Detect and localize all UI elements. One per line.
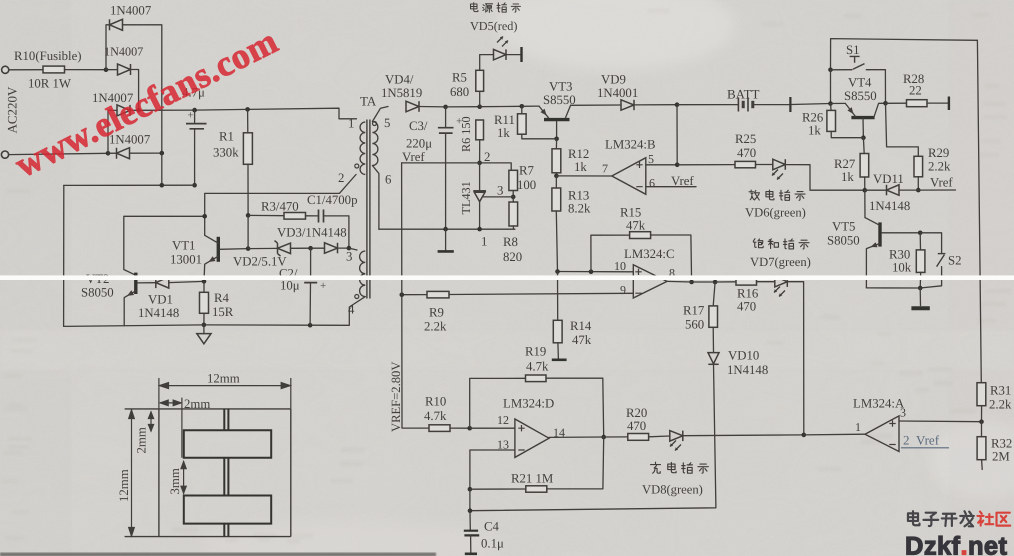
wire LM324:B output pin7 (556, 175, 611, 177)
wire node B to diode 4 (108, 152, 117, 154)
label saturation indicator (Chinese) (753, 239, 809, 249)
wire VT2 collector loop (124, 216, 205, 274)
junction Vcc / R11 (520, 104, 525, 109)
svg-text:S8050: S8050 (827, 233, 860, 247)
core E-shape bars (184, 409, 271, 537)
junction R29 / VD11 (916, 188, 921, 193)
wire R31 to divider node (981, 406, 983, 422)
TL431 shunt regulator U2 (479, 163, 481, 191)
node A junction (104, 67, 109, 72)
svg-text:2.2k: 2.2k (989, 398, 1012, 412)
dark scan edge bottom-left (0, 553, 436, 556)
wire R21 to output (547, 437, 604, 489)
junction pin12 / R19 (467, 426, 472, 431)
wire R13 node to LM324:C pin10 (558, 271, 634, 273)
wire R19 to output (546, 378, 604, 437)
svg-text:VD8(green): VD8(green) (642, 483, 703, 497)
LED VD7 saturation indicator (green) (775, 276, 788, 287)
svg-text:S2: S2 (948, 253, 962, 267)
junction + rail / R1 (245, 107, 250, 112)
wire VD9 to BATT node (634, 104, 677, 106)
junction VT1 collector / VT2 collector (202, 214, 207, 219)
svg-text:R32: R32 (991, 436, 1012, 450)
switch S1 (831, 69, 853, 71)
svg-text:R1: R1 (219, 130, 234, 144)
wire TL431 ref pin 3 (484, 196, 514, 198)
svg-text:TL431: TL431 (459, 181, 473, 214)
wire VD7 down to LM324:A input (787, 282, 804, 435)
svg-text:2: 2 (484, 150, 490, 164)
svg-text:47k: 47k (626, 218, 646, 232)
wire TL431 ground line (379, 228, 515, 230)
svg-text:560: 560 (685, 318, 704, 332)
wire R7 to R8 (512, 191, 514, 197)
transformer core dimension drawing (125, 409, 291, 537)
svg-text:LM324:D: LM324:D (503, 397, 554, 411)
svg-text:C4: C4 (484, 519, 500, 533)
wire R28 row (886, 102, 907, 104)
svg-text:R4: R4 (214, 291, 230, 305)
wire R16 to VD7 (757, 281, 775, 283)
junction R16 / R17 (713, 280, 718, 285)
wire R6 bottom lead (479, 140, 481, 163)
junction + rail / D2 (136, 108, 141, 113)
junction VD3 / C1 / winding pin 3 (347, 246, 352, 251)
svg-text:R25: R25 (735, 132, 756, 146)
wire VD3 to pin3 node (338, 247, 349, 249)
svg-text:5: 5 (648, 152, 654, 166)
svg-text:AC220V: AC220V (5, 86, 20, 134)
VT4 base lead (862, 118, 864, 138)
junction bottom rail / R4 (202, 323, 207, 328)
svg-text:1k: 1k (497, 126, 510, 140)
svg-text:R27: R27 (834, 157, 856, 171)
dimension 2mm left (148, 412, 153, 432)
svg-text:1N4148: 1N4148 (138, 306, 179, 320)
svg-text:47k: 47k (572, 333, 592, 347)
terminal AC input 2 (1, 151, 8, 158)
wire R10 to node A (65, 69, 107, 71)
diode VD3 1N4148 (325, 243, 338, 254)
svg-text:1N5819: 1N5819 (381, 86, 422, 100)
wire - rail (64, 184, 195, 186)
junction pin13 / R21 (468, 487, 473, 492)
junction pin5 / R25 (675, 163, 680, 168)
svg-text:C1/4700p: C1/4700p (307, 193, 357, 207)
wire winding4 to bottom rail (349, 297, 365, 326)
VT3 collector diagonal (566, 105, 571, 118)
wire Vref rail down (402, 163, 429, 428)
op-amp LM324:C (633, 265, 667, 298)
wire BATT node down to LM324:B pin5 (676, 105, 678, 165)
diode 1N4007 D4 (bridge) (117, 148, 130, 159)
svg-text:S1: S1 (846, 43, 860, 57)
svg-text:680: 680 (450, 85, 469, 99)
wire R3 to C1 (306, 215, 318, 217)
svg-text:TA: TA (360, 94, 377, 109)
junction R6 / TL431 node (477, 161, 482, 166)
VT2 emitter to bottom rail (124, 291, 136, 326)
svg-text:22: 22 (909, 83, 922, 97)
wire C3 node to R5/R6 node (446, 106, 480, 108)
VT1 emitter arrow (209, 256, 216, 262)
resistor R29 2.2k (914, 156, 923, 177)
capacitor C1 4700p (319, 210, 324, 223)
terminal stub after R28 (948, 97, 950, 111)
R17 and VD10 chain (713, 282, 715, 306)
junction D1/D4 negative node (160, 151, 165, 156)
battery BATT (677, 104, 738, 106)
diode VD1 1N4148 (156, 277, 169, 288)
svg-text:1N4007: 1N4007 (110, 4, 152, 18)
svg-text:R10(Fusible): R10(Fusible) (14, 49, 82, 63)
wire VD1 to VT1 emitter node (169, 281, 204, 282)
wire - rail down left side (63, 185, 65, 326)
logo shequ (Chinese red) (977, 512, 1010, 526)
wire R1 bottom lead (247, 164, 249, 215)
junction VT1 emitter / VD1 / R4 (202, 279, 207, 284)
ground bar below R30 (919, 288, 921, 306)
svg-text:7: 7 (602, 162, 608, 176)
resistor R8 820 (509, 202, 518, 226)
op-amp LM324:D (515, 419, 549, 457)
junction VT4 base / R26 (861, 135, 866, 140)
label charge indicator (Chinese) (651, 462, 709, 473)
wire primary pin2 to VT1 collector (205, 175, 356, 236)
svg-text:1: 1 (855, 420, 861, 434)
wire R3 node down to base row (247, 215, 249, 248)
wire R5 to VD5 (480, 55, 494, 71)
terminal stub after VD5 (520, 47, 522, 62)
svg-text:2.2k: 2.2k (928, 159, 951, 173)
junction + rail / C0 (192, 108, 197, 113)
svg-text:3: 3 (346, 250, 352, 264)
svg-text:12mm: 12mm (117, 469, 131, 502)
junction R13/R14/pin10 (555, 269, 560, 274)
transformer TA secondary winding 5-6 (372, 122, 378, 166)
junction VD2/VD3/C2 (308, 246, 313, 251)
wire to R11 node (480, 105, 522, 107)
resistor R15 47k (630, 232, 651, 239)
svg-text:100: 100 (517, 178, 536, 192)
svg-text:R9: R9 (429, 305, 444, 319)
wire VD6 to VD11 row (785, 165, 865, 191)
wire C3 to ground line (445, 133, 447, 229)
wire S2 to bottom (920, 267, 941, 288)
resistor R31 2.2k (977, 383, 986, 406)
resistor R9 2.2k (427, 291, 449, 298)
svg-text:15R: 15R (212, 305, 234, 319)
junction ground line / TL431 (477, 227, 482, 232)
resistor R30 10k (916, 250, 925, 273)
wire R10 to pin12 node (450, 427, 470, 429)
wire VT3 collector rail (571, 104, 621, 106)
wire R1 junction to R3 (248, 214, 284, 216)
svg-text:1k: 1k (841, 170, 854, 184)
battery terminal bar (789, 97, 791, 112)
wire Vref top line (402, 163, 512, 170)
junction R30 / ground (918, 286, 923, 291)
svg-text:VT3: VT3 (549, 80, 572, 94)
wire node B up to diode 3 (108, 110, 117, 153)
resistor R25 470 (735, 161, 756, 167)
logo dianzi kaifa (Chinese) (908, 511, 974, 526)
wire battery node to S1 box (831, 39, 978, 70)
wire VT4 collector to R29 (886, 103, 919, 156)
VT1 base wire (220, 248, 248, 251)
resistor R11 1k (518, 114, 527, 134)
diode 1N4007 D1 (bridge, top) (110, 19, 123, 30)
svg-text:3: 3 (900, 405, 906, 419)
svg-text:1: 1 (481, 235, 487, 249)
capacitor C2 10u (310, 248, 312, 277)
svg-text:VD10: VD10 (728, 348, 759, 362)
svg-text:R8: R8 (503, 235, 518, 249)
wire R28 to stub (927, 102, 948, 104)
svg-text:VD11: VD11 (873, 172, 904, 186)
svg-text:1N4148: 1N4148 (869, 199, 910, 213)
svg-text:2: 2 (338, 171, 344, 185)
wire VD10 to integrator input (470, 364, 716, 510)
svg-text:VD7(green): VD7(green) (750, 255, 811, 269)
resistor R5 680 (476, 70, 484, 91)
junction VT4 collector / R28 / R29 (883, 101, 888, 106)
svg-text:2mm: 2mm (184, 397, 210, 411)
svg-text:2: 2 (903, 432, 910, 447)
svg-text:220μ: 220μ (406, 136, 432, 150)
dimension 12mm top (159, 378, 291, 409)
VT3 emitter diagonal (539, 106, 549, 118)
terminal AC input 1 (2, 66, 9, 73)
svg-text:2M: 2M (992, 450, 1010, 464)
svg-text:4.7k: 4.7k (424, 409, 447, 423)
svg-text:3mm: 3mm (168, 468, 182, 494)
svg-text:VD9: VD9 (601, 72, 626, 86)
svg-text:VT1: VT1 (172, 238, 195, 252)
junction VT3 base / R11 (554, 137, 559, 142)
resistor R28 22 (907, 100, 928, 107)
wire LM324:B pin6 Vref stub (646, 186, 696, 188)
svg-text:VD3/1N4148: VD3/1N4148 (277, 226, 347, 240)
zener diode VD2 5.1V (275, 241, 291, 257)
wire R32 bottom stub (981, 460, 984, 470)
svg-text:5: 5 (384, 116, 390, 130)
svg-text:9: 9 (620, 283, 626, 297)
svg-text:VD1: VD1 (148, 293, 173, 307)
LED VD5 power indicator (red) (494, 49, 507, 60)
wire node A up to top diode row (106, 25, 110, 70)
wire VD8 to LM324:A (683, 434, 804, 437)
resistor R19 4.7k (526, 375, 547, 382)
label discharge indicator (Chinese) (749, 190, 805, 200)
junction R7/R8/ref (511, 195, 516, 200)
svg-text:R21 1M: R21 1M (511, 472, 553, 486)
wire secondary pin6 down (372, 166, 379, 230)
resistor R16 470 (736, 279, 757, 286)
svg-text:R5: R5 (452, 70, 467, 84)
svg-text:VD5(red): VD5(red) (470, 19, 517, 33)
junction R1/R3 (246, 213, 251, 218)
svg-text:Vref: Vref (916, 432, 940, 447)
wire to VD3 (311, 247, 325, 249)
op-amp LM324:A (points left) (865, 416, 899, 452)
svg-text:10: 10 (614, 259, 626, 273)
junction LM324:C output (689, 280, 694, 285)
wire VT4 base to R27 (862, 138, 865, 154)
capacitor C4 0.1u (469, 511, 471, 530)
wire secondary pin5 up to VD4 (372, 107, 388, 122)
resistor R12 1k (552, 149, 561, 173)
dimension 3mm middle (181, 461, 186, 494)
svg-text:LM324:A: LM324:A (853, 396, 905, 410)
svg-text:R31: R31 (990, 383, 1011, 397)
svg-text:0.1μ: 0.1μ (481, 537, 504, 551)
svg-text:R20: R20 (626, 406, 647, 420)
resistor R27 1k (860, 154, 869, 178)
wire LM324:C output pin8 (667, 280, 692, 283)
VT4 collector diagonal (874, 103, 885, 116)
node B junction (106, 151, 111, 156)
junction LM324:D output (601, 435, 606, 440)
diode 1N4007 D3 (bridge) (117, 105, 130, 116)
svg-text:1: 1 (348, 117, 354, 131)
svg-text:1k: 1k (808, 123, 821, 137)
svg-text:R10: R10 (425, 395, 446, 409)
wire R9 to LM324:C pin9 (449, 293, 633, 294)
junction R12/R13/op-amp B out (554, 174, 559, 179)
resistor R20 470 (628, 434, 649, 441)
VT5 collector lead (864, 190, 866, 217)
wire base node to S2 (920, 233, 941, 253)
wire LM324:B pin5 (646, 164, 677, 166)
white scan artifact band (0, 275, 1014, 280)
VT4 emitter diagonal (845, 103, 855, 116)
diode VD9 1N4001 (621, 100, 634, 110)
junction Vref rail / R9 (400, 292, 405, 297)
wire to VT3 emitter (522, 105, 539, 107)
wire R5 lower lead (479, 91, 481, 106)
svg-text:12: 12 (497, 413, 509, 427)
diode 1N4007 D2 (bridge) (118, 64, 131, 75)
svg-text:8.2k: 8.2k (568, 202, 591, 216)
svg-text:R13: R13 (568, 188, 589, 202)
wire pin 12 (470, 427, 515, 429)
junction Vcc / C3 (443, 105, 448, 110)
wire pin5 node to R25 (677, 164, 735, 166)
resistor R26 1k (827, 110, 836, 131)
wire bottom rail (emitter ground rail) (64, 325, 349, 327)
svg-text:R17: R17 (683, 304, 705, 318)
wire to LM324:A output node (804, 433, 865, 436)
wire R9 row to pin 9 (402, 294, 427, 296)
VT5 base wire (882, 232, 921, 234)
wire D2 cathode down to + rail (131, 70, 139, 111)
svg-text:Vref: Vref (402, 150, 425, 164)
svg-text:R3/470: R3/470 (261, 199, 299, 213)
svg-text:12mm: 12mm (207, 371, 240, 385)
wire D4 to negative node (130, 152, 162, 154)
VT2 emitter arrow (127, 290, 134, 296)
junction S1 node (828, 68, 833, 73)
svg-text:13001: 13001 (170, 252, 202, 266)
wire VT5 emitter to ground node (866, 287, 920, 289)
svg-text:1N4001: 1N4001 (597, 86, 638, 100)
wire R25 to VD6 (756, 164, 773, 166)
resistor R13 8.2k (552, 188, 561, 211)
VT5 emitter diagonal down (866, 243, 880, 288)
polarity dot primary (355, 164, 359, 168)
svg-text:LM324:C: LM324:C (624, 247, 674, 261)
svg-text:330k: 330k (213, 146, 239, 160)
svg-text:R29: R29 (928, 146, 949, 160)
svg-text:+: + (188, 110, 194, 122)
svg-text:S8550: S8550 (844, 89, 877, 103)
resistor R3 470 (284, 213, 306, 220)
label power indicator (Chinese) (471, 3, 521, 13)
junction - rail / C0 (192, 183, 197, 188)
svg-text:470: 470 (737, 299, 756, 313)
wire C1 to winding pin3 node (324, 216, 349, 248)
svg-text:LM324:B: LM324:B (605, 137, 655, 151)
svg-text:C3/: C3/ (409, 119, 428, 133)
wire VD4 to C3 node (419, 106, 446, 108)
resistor R32 2M (977, 437, 986, 460)
svg-text:R30: R30 (889, 247, 910, 261)
LED VD6 discharge indicator (green) (773, 159, 786, 170)
transistor VT1 13001 (217, 237, 220, 262)
junction - rail / bridge (160, 183, 165, 188)
svg-text:10R 1W: 10R 1W (28, 77, 72, 91)
wire to VD11 anode (865, 189, 887, 191)
junction R31/R32 divider (979, 419, 984, 424)
LED VD8 charge indicator (green) (670, 431, 683, 442)
capacitor 4.7u filter (186, 124, 207, 129)
wire VD11 row to Vref stub (918, 189, 955, 191)
VT3 base lead (556, 121, 558, 139)
resistor R21 1M (526, 486, 547, 492)
feedback loop R15 (591, 235, 630, 272)
VT1 collector diagonal (205, 235, 219, 243)
svg-text:470: 470 (627, 419, 646, 433)
wire pin13 node to C4 node (469, 489, 471, 511)
svg-text:3: 3 (497, 184, 503, 198)
junction bottom rail / C2 (308, 323, 313, 328)
wire LM324:A pin3 to divider (899, 420, 982, 423)
junction C4 / VD10 return (468, 508, 473, 513)
wire AC2 to bridge (9, 153, 108, 154)
resistor R7 100 (509, 170, 518, 190)
svg-text:Vref: Vref (671, 174, 694, 188)
svg-text:Vref: Vref (930, 175, 953, 189)
wire S1 node down to VT4 emitter (830, 70, 832, 104)
svg-text:VT4: VT4 (848, 75, 872, 89)
wire R1 top lead (247, 109, 249, 132)
feedback R19 (470, 378, 526, 428)
feedback R21 1M (470, 488, 526, 490)
svg-text:R26: R26 (802, 110, 824, 124)
diode VD10 1N4148 (vertical) (708, 353, 719, 365)
wire pin 13 down (470, 450, 515, 489)
wire into winding pin 3 (349, 248, 357, 250)
resistor R1 330k (243, 133, 252, 165)
switch S2 (937, 254, 946, 267)
diode VD4 1N5819 (406, 101, 419, 112)
transistor VT3 S8550 (544, 118, 570, 121)
transformer TA feedback winding 3-4 (360, 251, 366, 297)
svg-text:6: 6 (385, 172, 392, 186)
junction VT5 base / R30 / S2 (918, 231, 923, 236)
wire AC1 to R10 (9, 69, 43, 71)
